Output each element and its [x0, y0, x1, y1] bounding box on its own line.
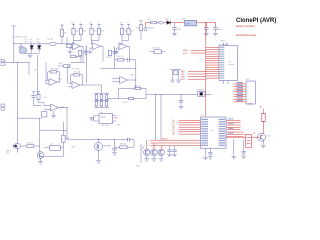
wire cap leg 1	[233, 139, 235, 155]
wire LED to R22	[21, 145, 27, 147]
capacitor C29	[114, 140, 116, 149]
ground TX	[28, 54, 33, 56]
wire U1A out	[57, 81, 60, 83]
wire comparator C out	[127, 45, 129, 47]
wire net D-	[188, 76, 206, 78]
resistor divider Ca	[120, 23, 123, 25]
ground IC2	[203, 156, 208, 158]
svg-text:SV1: SV1	[246, 79, 250, 81]
svg-text:red: red	[6, 152, 9, 155]
svg-text:AVCC: AVCC	[221, 40, 227, 43]
svg-text:R9 C6: R9 C6	[106, 57, 111, 59]
wire lattice mid	[94, 99, 109, 101]
MCU pin labels left	[220, 47, 225, 48]
svg-text:GND: GND	[248, 104, 253, 106]
IC2 right net labels	[228, 118, 234, 119]
IC VR1 regulator 7809	[185, 20, 197, 26]
wire down left 1	[155, 95, 157, 140]
svg-text:78L05: 78L05	[100, 116, 105, 118]
svg-text:IC2: IC2	[201, 115, 204, 117]
svg-text:4k7: 4k7	[83, 31, 86, 33]
svg-text:R14 C9: R14 C9	[117, 56, 123, 58]
resistor divider Ab	[79, 23, 82, 25]
IC2 wires right	[226, 119, 241, 121]
diode D3	[167, 21, 170, 25]
node TX-IN rail	[13, 26, 15, 62]
MCU pin wires	[206, 47, 219, 49]
op-amp U1C	[51, 104, 59, 111]
resistor R22	[27, 145, 34, 148]
svg-text:R26 10: R26 10	[120, 144, 126, 146]
switch S1	[154, 50, 161, 54]
resistor R1	[49, 42, 56, 45]
capacitor C1	[20, 44, 22, 46]
capacitor C20	[174, 23, 176, 28]
svg-text:LS: LS	[253, 133, 256, 135]
wire cap leg 2	[243, 139, 245, 151]
resistor lattice row1	[95, 95, 98, 100]
transistor Q4	[151, 149, 157, 155]
svg-text:4k7: 4k7	[101, 31, 104, 33]
svg-text:KD: KD	[37, 41, 40, 43]
svg-text:BC3: BC3	[267, 135, 271, 137]
LED LED1	[14, 144, 21, 149]
svg-text:R1 10: R1 10	[48, 39, 54, 41]
wire net RST	[188, 78, 206, 80]
op-amp comparator C	[122, 40, 129, 42]
svg-text:+9V: +9V	[259, 106, 263, 108]
wire audio link	[40, 129, 67, 131]
svg-text:R2: R2	[64, 32, 67, 34]
wire MCU bottom stubs	[223, 81, 225, 85]
connector SV1 wires	[234, 83, 247, 85]
inductor L2	[158, 21, 164, 24]
ground comparator A	[69, 48, 71, 51]
svg-text:470u: 470u	[177, 29, 181, 31]
wire comparator B out	[101, 45, 103, 47]
svg-text:TH: TH	[44, 97, 47, 99]
svg-text:1: 1	[5, 61, 6, 63]
resistor divider Bb	[97, 23, 100, 25]
svg-text:R15: R15	[136, 28, 139, 30]
capacitor C11	[90, 116, 94, 118]
resistor R9 with C	[108, 50, 111, 56]
svg-text:m8: m8	[211, 130, 214, 132]
ground S3	[178, 76, 180, 79]
svg-text:2: 2	[5, 64, 6, 66]
svg-text:5V: 5V	[118, 125, 121, 127]
svg-text:R11 100k: R11 100k	[51, 69, 59, 71]
svg-text:12V DC: 12V DC	[148, 27, 156, 29]
ground C22	[213, 32, 218, 34]
svg-text:R7 C4: R7 C4	[76, 57, 81, 59]
buttons S2 S3	[172, 70, 174, 77]
wire comparator A out	[81, 45, 83, 47]
wire U3 pins left	[94, 115, 100, 117]
resistor divider Ba	[90, 23, 93, 25]
svg-text:D6: D6	[172, 134, 174, 136]
capacitor C13	[32, 91, 35, 93]
svg-text:KD: KD	[29, 41, 32, 43]
resistor R14 feedback	[118, 59, 124, 61]
diode D1	[31, 44, 33, 46]
wire U1B input vertical	[67, 66, 69, 83]
wire audio h2	[41, 155, 64, 157]
IC2 pin labels left	[201, 119, 208, 120]
svg-text:U3: U3	[100, 112, 102, 114]
wire left rail long	[16, 62, 18, 146]
resistor R26	[120, 146, 127, 149]
wire U1B out	[81, 84, 101, 86]
ground C29	[112, 152, 117, 154]
ground Q7	[96, 160, 101, 162]
wire U2A loop	[135, 60, 137, 89]
wire TX to stage2	[68, 43, 74, 45]
resistor R16	[37, 91, 40, 93]
capacitor C16	[180, 95, 182, 101]
wire U1C out	[59, 107, 67, 109]
connector X3	[1, 104, 4, 107]
op-amp comparator A	[74, 40, 82, 42]
IC2 wires left	[179, 119, 201, 121]
op-amp comparator B	[92, 40, 100, 42]
resistor R10 input	[58, 65, 64, 67]
svg-text:U4: U4	[50, 143, 52, 145]
svg-text:R24: R24	[65, 138, 68, 140]
wire net MOSI	[191, 49, 206, 51]
svg-text:R10: R10	[59, 63, 62, 65]
fuse F1	[151, 21, 157, 23]
svg-text:R22 1k: R22 1k	[27, 142, 33, 144]
wire net D+	[188, 73, 206, 75]
ground U1C	[53, 111, 55, 115]
resistor R2	[60, 30, 63, 37]
wire TX horiz	[4, 61, 29, 63]
ground Q2	[261, 144, 266, 146]
svg-text:ClonePI (AVR): ClonePI (AVR)	[236, 18, 276, 24]
ground C21	[204, 32, 209, 34]
svg-text:R12 1M: R12 1M	[74, 72, 81, 74]
capacitor C21	[205, 23, 207, 28]
resistor R7 with C	[79, 50, 82, 56]
resistor divider Aa	[72, 23, 75, 25]
wire lattice right	[109, 98, 146, 100]
wire gnd bus TX	[21, 52, 39, 54]
transistor Q6	[37, 152, 44, 159]
ground left rail	[16, 146, 18, 153]
svg-text:R20 1k: R20 1k	[134, 85, 140, 87]
power +12V R2	[60, 24, 63, 26]
svg-text:R5 470k: R5 470k	[73, 69, 80, 71]
svg-text:VR1: VR1	[182, 18, 186, 20]
svg-text:IC1 mega8: IC1 mega8	[219, 44, 228, 46]
connector battery	[145, 23, 147, 28]
svg-text:10k: 10k	[124, 31, 127, 33]
wire R30 to Q2	[263, 121, 265, 133]
diode D2	[38, 44, 40, 46]
wire +12V rail	[146, 22, 216, 24]
svg-text:4k7: 4k7	[131, 31, 134, 33]
wire drain bus	[67, 139, 128, 141]
wire net DTR	[188, 70, 206, 72]
capacitor C1 body	[20, 48, 27, 53]
svg-text:S1 mode: S1 mode	[153, 48, 161, 50]
MOSFET Q7	[95, 143, 103, 151]
svg-text:Sandy Inventica: Sandy Inventica	[236, 24, 255, 28]
svg-text:c15 100n: c15 100n	[101, 125, 109, 127]
svg-text:D3: D3	[165, 19, 167, 21]
svg-text:R21 1k: R21 1k	[123, 102, 129, 104]
transistor Q5	[158, 149, 164, 155]
wire XTAL horizontal	[146, 94, 212, 96]
svg-text:1: 1	[5, 106, 6, 108]
resistor R30	[263, 109, 265, 114]
wire MCU top stubs	[223, 42, 225, 45]
wire U3 pins right	[113, 115, 117, 117]
wire down left 2	[160, 95, 162, 140]
svg-text:SandyIDInventica: SandyIDInventica	[236, 33, 257, 37]
svg-text:U2A: U2A	[130, 74, 134, 77]
capacitor C28	[127, 138, 129, 142]
svg-text:RV1: RV1	[136, 165, 140, 167]
wire +9V bus	[205, 23, 207, 117]
svg-text:+5V: +5V	[71, 146, 75, 148]
svg-text:100n: 100n	[217, 29, 221, 31]
ground comparator C	[116, 48, 118, 51]
resistor R5 loop	[71, 55, 76, 57]
wire comparator outputs down	[86, 46, 88, 83]
capacitor C26	[174, 146, 176, 150]
wire loop right	[117, 89, 119, 99]
transistor Q2	[258, 133, 266, 141]
capacitor C18	[208, 151, 212, 153]
ground C16	[179, 105, 184, 107]
capacitor C22	[215, 23, 217, 28]
svg-text:TX: TX	[34, 69, 37, 71]
svg-text:RST: RST	[181, 79, 186, 81]
wire net SCK	[191, 52, 206, 54]
op-amp U1B	[72, 82, 80, 89]
svg-text:+5Va: +5Va	[113, 117, 118, 119]
connector X2	[1, 59, 4, 62]
connector LS1	[246, 135, 252, 148]
svg-text:F1: F1	[148, 19, 150, 21]
IC2 pin labels right	[219, 119, 226, 120]
wire mid horizontal	[17, 117, 41, 119]
capacitor C25	[169, 146, 171, 150]
wire TX rails	[37, 55, 39, 95]
wire lattice bottom	[94, 106, 109, 108]
svg-text:Q1 8MHz: Q1 8MHz	[196, 90, 204, 92]
resistor R20	[135, 87, 141, 89]
op-amp U1A	[49, 79, 57, 86]
resistor R24	[62, 122, 64, 135]
wire TX main	[14, 43, 68, 45]
IC1 ATmega8 MCU	[219, 46, 238, 81]
IC U4 box	[50, 145, 61, 150]
wire audio rail	[39, 118, 41, 152]
svg-text:mega8: mega8	[228, 64, 234, 66]
connector SV1 ISP	[246, 81, 255, 104]
svg-text:IRF9640: IRF9640	[104, 146, 111, 148]
IC U3 regulator	[99, 114, 113, 124]
wire IC2 bottom stubs	[205, 148, 207, 156]
svg-text:10k: 10k	[76, 31, 79, 33]
wire key rows	[151, 139, 201, 141]
wire audio h	[44, 147, 50, 149]
ground C20	[172, 32, 177, 34]
svg-text:2n2: 2n2	[25, 41, 29, 43]
resistor R12 feedback	[74, 74, 80, 76]
resistor divider Cb	[127, 23, 130, 25]
resistor R4	[67, 45, 72, 48]
IC2 port expander	[201, 117, 227, 148]
resistor R21	[129, 97, 134, 99]
wire R5 loop	[76, 55, 82, 57]
svg-text:SCK: SCK	[183, 53, 188, 55]
transistor Q3	[144, 149, 150, 155]
resistor R15 column	[139, 20, 142, 22]
wire R26 link	[127, 146, 134, 148]
resistor R11 feedback	[51, 71, 57, 73]
capacitor C9 feedback	[127, 59, 128, 61]
svg-text:U1A: U1A	[58, 77, 62, 80]
ground S2	[172, 76, 174, 79]
svg-text:10k: 10k	[94, 31, 97, 33]
crystal Q1	[197, 92, 205, 97]
svg-text:KEYS: KEYS	[162, 138, 168, 140]
op-amp U2A	[120, 77, 128, 84]
ground comparator B	[89, 48, 91, 51]
resistor R17	[42, 112, 47, 117]
potentiometer RV1	[140, 144, 142, 163]
wire lattice top	[94, 92, 109, 94]
